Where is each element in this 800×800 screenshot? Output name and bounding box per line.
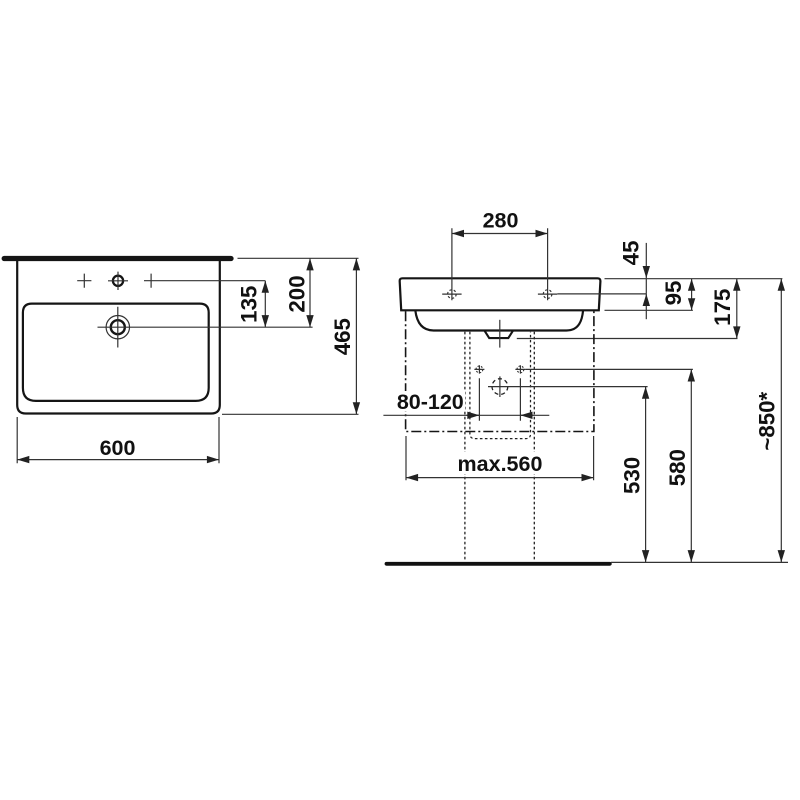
svg-text:280: 280 <box>483 209 519 233</box>
svg-text:~850*: ~850* <box>755 391 780 450</box>
svg-text:530: 530 <box>620 457 645 494</box>
svg-text:max.560: max.560 <box>458 452 543 476</box>
svg-text:135: 135 <box>236 286 261 323</box>
svg-text:80-120: 80-120 <box>397 390 464 414</box>
svg-text:45: 45 <box>619 240 644 265</box>
svg-text:200: 200 <box>284 275 309 312</box>
svg-text:600: 600 <box>100 436 136 460</box>
svg-text:580: 580 <box>665 449 690 486</box>
svg-text:95: 95 <box>661 281 686 306</box>
svg-text:465: 465 <box>330 318 355 355</box>
svg-text:175: 175 <box>710 289 735 326</box>
